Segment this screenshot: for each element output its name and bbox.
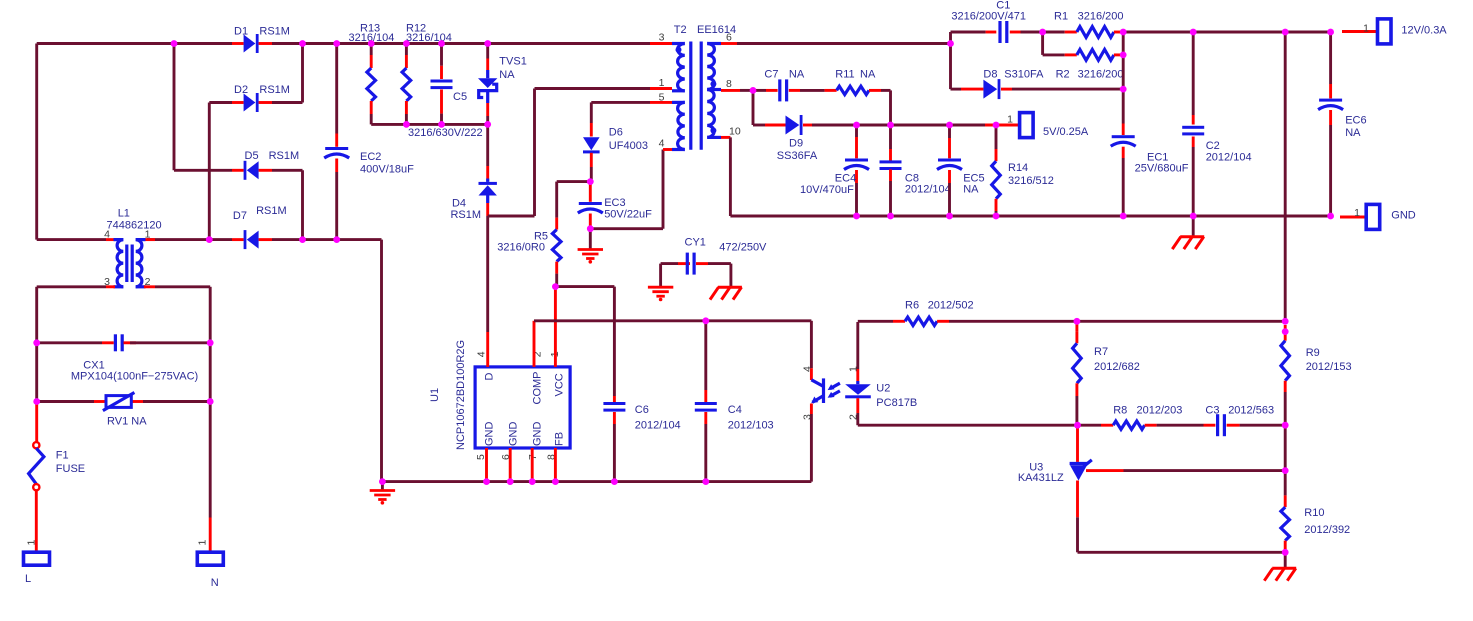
- wire D2 branch vertical: [301, 44, 304, 103]
- svg-text:C3: C3: [1205, 404, 1219, 416]
- svg-text:GND: GND: [1391, 210, 1416, 222]
- diode U2 LED: [856, 322, 859, 369]
- svg-text:GND: GND: [484, 422, 496, 447]
- svg-text:5: 5: [659, 92, 665, 104]
- diode D5: [232, 169, 244, 172]
- svg-text:5V/0.25A: 5V/0.25A: [1043, 126, 1089, 138]
- ground chassis below R10: [1284, 552, 1287, 568]
- svg-text:2012/392: 2012/392: [1304, 524, 1350, 536]
- svg-text:VCC: VCC: [554, 373, 566, 396]
- connector GND: [1366, 204, 1380, 229]
- svg-text:NA: NA: [963, 184, 979, 196]
- wire R5 node to C6: [555, 285, 614, 288]
- svg-text:2012/153: 2012/153: [1306, 361, 1352, 373]
- svg-text:472/250V: 472/250V: [719, 242, 767, 254]
- svg-text:R11: R11: [835, 69, 854, 81]
- svg-text:10V/470uF: 10V/470uF: [800, 184, 854, 196]
- svg-text:50V/22uF: 50V/22uF: [604, 209, 652, 221]
- wire N column: [209, 287, 212, 343]
- diode D2: [232, 101, 244, 104]
- wire U1 pin5: [485, 448, 488, 482]
- svg-text:KA431LZ: KA431LZ: [1018, 472, 1064, 484]
- wire left column to fuse: [35, 287, 38, 343]
- svg-text:RV1 NA: RV1 NA: [107, 416, 147, 428]
- svg-text:C7: C7: [764, 69, 778, 81]
- diode D8: [951, 88, 962, 91]
- svg-text:COMP: COMP: [532, 372, 544, 405]
- svg-text:T2: T2: [674, 24, 687, 36]
- wire U3 anode down: [1076, 481, 1079, 518]
- wire R6 row: [858, 320, 893, 323]
- svg-text:1: 1: [1354, 207, 1360, 219]
- diode D9: [753, 124, 765, 127]
- svg-text:2012/563: 2012/563: [1228, 404, 1274, 416]
- diode D1: [232, 42, 244, 45]
- shunt regulator U3 KA431LZ: [1070, 460, 1092, 481]
- varistor RV1: [37, 400, 94, 403]
- svg-text:RS1M: RS1M: [269, 150, 300, 162]
- resistor R14: [995, 125, 998, 135]
- wire U2 pin3 to ground rail: [810, 404, 813, 415]
- svg-text:1: 1: [659, 77, 665, 89]
- capacitor C6: [613, 396, 616, 402]
- wire D5 branch from node: [173, 44, 176, 171]
- wire D6 top to T2 pin5: [591, 101, 650, 104]
- svg-text:3216/512: 3216/512: [1008, 175, 1054, 187]
- svg-text:RS1M: RS1M: [256, 205, 287, 217]
- wire GND red to connector: [1340, 216, 1366, 219]
- svg-text:SS36FA: SS36FA: [777, 150, 818, 162]
- wire R11 to C8 column: [881, 89, 891, 92]
- capacitor EC3: [589, 182, 592, 190]
- capacitor C4: [704, 321, 707, 390]
- resistor R13: [370, 44, 373, 56]
- svg-text:C4: C4: [728, 404, 742, 416]
- svg-text:2012/104: 2012/104: [905, 184, 951, 196]
- diode D6: [590, 102, 593, 123]
- wire T2 pin6 to C1 node: [737, 42, 951, 45]
- svg-text:R9: R9: [1306, 347, 1320, 359]
- capacitor C3: [1157, 424, 1204, 427]
- wire left vertical from top rail: [35, 44, 38, 240]
- svg-text:D9: D9: [789, 138, 803, 150]
- resistor R9: [1284, 325, 1287, 341]
- junction dots top rail: [171, 40, 178, 47]
- svg-text:N: N: [211, 577, 219, 589]
- fuse F1: [33, 442, 39, 448]
- svg-text:1: 1: [197, 540, 209, 546]
- svg-text:RS1M: RS1M: [259, 26, 290, 38]
- svg-text:EC6: EC6: [1345, 115, 1366, 127]
- resistor R8: [1078, 424, 1102, 427]
- capacitor EC6: [1329, 32, 1332, 84]
- svg-text:3216/200V/471: 3216/200V/471: [951, 11, 1026, 23]
- svg-text:2012/104: 2012/104: [635, 420, 681, 432]
- wire 5V row red to connector: [985, 124, 1020, 127]
- junction dots CX1 RV1 rows: [33, 339, 40, 346]
- svg-text:400V/18uF: 400V/18uF: [360, 164, 414, 176]
- junction dot pin6 node: [947, 40, 954, 47]
- ground chassis below C2: [1192, 216, 1195, 237]
- capacitor C7: [753, 89, 766, 92]
- svg-text:L: L: [25, 573, 31, 585]
- wire D4 node to U1 pin4: [486, 216, 489, 332]
- wire EC3 node to T2 pin4: [590, 227, 663, 230]
- capacitor C5: [440, 44, 443, 66]
- wire pin6 node vertical: [949, 32, 952, 44]
- junction dot T2 pin8 node: [750, 87, 757, 94]
- svg-text:D6: D6: [609, 127, 623, 139]
- diode D4: [486, 166, 489, 179]
- wire top rail left segment: [37, 42, 232, 45]
- svg-text:CY1: CY1: [685, 237, 706, 249]
- wire right drop to U1 ground rail: [380, 240, 383, 482]
- wire TVS to D4: [486, 124, 489, 166]
- svg-text:R6: R6: [905, 300, 919, 312]
- svg-text:R10: R10: [1304, 507, 1324, 519]
- junction dots feedback: [1074, 318, 1081, 325]
- svg-text:EC3: EC3: [604, 197, 625, 209]
- svg-text:3216/200: 3216/200: [1078, 69, 1124, 81]
- wire U1 pin8 FB: [554, 448, 557, 482]
- capacitor CX1: [37, 341, 102, 344]
- resistor R10: [1284, 471, 1287, 496]
- svg-text:D5: D5: [245, 150, 259, 162]
- resistor R2: [1065, 53, 1077, 56]
- svg-text:EC4: EC4: [835, 172, 856, 184]
- wire R2 branch: [1041, 32, 1044, 55]
- wire U1 pin6: [509, 448, 512, 482]
- wire secondary ground rail: [730, 215, 1123, 218]
- svg-text:2: 2: [848, 414, 860, 420]
- junction dots 12V rail: [1039, 29, 1046, 36]
- capacitor EC4: [855, 125, 858, 137]
- svg-text:R14: R14: [1008, 162, 1028, 174]
- svg-text:D2: D2: [234, 84, 248, 96]
- capacitor EC5: [948, 125, 951, 138]
- wire COMP row: [534, 319, 706, 322]
- wire snubber bottom rail: [371, 123, 488, 126]
- junction dots D6 EC3 R5 nodes: [587, 178, 594, 185]
- junction dots primary ground rail: [379, 478, 386, 485]
- svg-text:4: 4: [802, 366, 814, 372]
- wire 12V rail drop to R9: [1284, 32, 1287, 321]
- wire T2 pin6 red stub: [721, 42, 737, 45]
- wire U3 cathode from R8 row: [1076, 425, 1079, 462]
- svg-text:1: 1: [145, 229, 151, 241]
- diode D7: [232, 238, 244, 241]
- wire T2 pin8 stub: [721, 89, 740, 92]
- svg-text:8: 8: [726, 78, 732, 90]
- svg-text:3216/630V/222: 3216/630V/222: [408, 127, 483, 139]
- svg-text:C2: C2: [1206, 140, 1220, 152]
- svg-text:S310FA: S310FA: [1004, 69, 1044, 81]
- svg-text:D: D: [484, 373, 496, 381]
- junction dots secondary ground rail: [853, 213, 860, 220]
- svg-text:4: 4: [659, 138, 665, 150]
- svg-text:744862120: 744862120: [107, 220, 162, 232]
- resistor R12: [405, 44, 408, 56]
- svg-text:F1: F1: [56, 450, 69, 462]
- resistor R1: [1043, 31, 1065, 34]
- wire to L1 pin 4: [37, 238, 106, 241]
- wire U1 pin4: [486, 332, 489, 367]
- wire U2 pin4 from COMP row: [810, 321, 813, 368]
- transistor U2 phototransistor: [811, 378, 823, 403]
- connector N: [197, 552, 223, 565]
- svg-text:R1: R1: [1054, 11, 1068, 23]
- svg-text:GND: GND: [532, 422, 544, 447]
- capacitor C2: [1192, 32, 1195, 115]
- svg-text:PC817B: PC817B: [876, 397, 917, 409]
- wire D5 to bottom row: [272, 169, 303, 172]
- svg-text:NA: NA: [860, 69, 876, 81]
- ground chassis CY1 right: [729, 264, 732, 288]
- svg-text:TVS1: TVS1: [499, 56, 527, 68]
- resistor R6: [893, 320, 905, 323]
- wire R9 R10 mid column: [1284, 425, 1287, 470]
- wire U1 pin2 COMP to row: [533, 321, 536, 367]
- svg-text:D4: D4: [452, 198, 466, 210]
- svg-text:NA: NA: [1345, 127, 1361, 139]
- capacitor C1: [951, 31, 986, 34]
- wire U3 bottom row: [1078, 551, 1286, 554]
- op-amp U1 NCP10672 box: [475, 367, 570, 448]
- svg-text:U1: U1: [429, 388, 441, 402]
- svg-text:6: 6: [726, 32, 732, 44]
- svg-text:4: 4: [476, 351, 488, 357]
- svg-text:12V/0.3A: 12V/0.3A: [1401, 25, 1447, 37]
- svg-text:RS1M: RS1M: [259, 84, 290, 96]
- wire D4 node to T2 pin1: [488, 215, 535, 218]
- wire L1 pin2 row: [144, 285, 155, 288]
- junction dots 5V row: [853, 122, 860, 129]
- connector 5V/0.25A: [1020, 113, 1034, 138]
- svg-text:3: 3: [802, 414, 814, 420]
- inductor L1 common-mode choke: [114, 240, 146, 287]
- junction dots EC1 column: [1120, 52, 1127, 59]
- svg-text:EC2: EC2: [360, 151, 381, 163]
- resistor R7: [1075, 321, 1078, 331]
- svg-text:3216/104: 3216/104: [406, 32, 452, 44]
- ground earth primary rail: [381, 482, 384, 491]
- capacitor EC2: [335, 44, 338, 134]
- svg-text:2012/103: 2012/103: [728, 420, 774, 432]
- svg-text:R7: R7: [1094, 346, 1108, 358]
- connector 12V/0.3A: [1378, 19, 1392, 44]
- capacitor C8: [889, 125, 892, 149]
- svg-text:2012/502: 2012/502: [928, 300, 974, 312]
- svg-text:NCP10672BD100R2G: NCP10672BD100R2G: [455, 340, 467, 450]
- wire T2 pin8 node down to D9: [752, 90, 755, 125]
- svg-text:3216/0R0: 3216/0R0: [497, 242, 545, 254]
- wire D7 row / L1 pin1 to EC2 column: [147, 238, 232, 241]
- svg-text:FB: FB: [554, 432, 566, 446]
- resistor R5: [555, 182, 558, 218]
- wire 12V rail: [1123, 31, 1193, 34]
- svg-text:UF4003: UF4003: [609, 140, 648, 152]
- svg-text:GND: GND: [508, 422, 520, 447]
- capacitor EC1: [1122, 32, 1125, 55]
- connector L: [24, 552, 50, 565]
- svg-text:D8: D8: [983, 69, 997, 81]
- svg-text:1: 1: [1007, 113, 1013, 125]
- wire 5V row: [857, 124, 891, 127]
- svg-text:D1: D1: [234, 26, 248, 38]
- ground earth CY1 left: [659, 264, 662, 288]
- U2 light arrows: [828, 383, 840, 398]
- resistor R11: [825, 89, 837, 92]
- svg-text:4: 4: [104, 229, 110, 241]
- svg-text:R8: R8: [1113, 404, 1127, 416]
- svg-text:D7: D7: [233, 210, 247, 222]
- wire U1 pin7: [531, 448, 534, 482]
- svg-text:NA: NA: [499, 69, 515, 81]
- ground earth below EC3: [589, 229, 592, 250]
- svg-text:C5: C5: [453, 91, 467, 103]
- svg-text:NA: NA: [789, 69, 805, 81]
- wire T2 pin10 to secondary ground rail: [721, 136, 730, 139]
- junction dots D7 row: [206, 236, 213, 243]
- TVS diode TVS1: [486, 44, 489, 59]
- wire primary ground rail: [382, 480, 811, 483]
- transformer T2: [650, 42, 721, 150]
- wire 12V red to connector: [1342, 30, 1378, 33]
- junction dot C4 top: [702, 317, 709, 324]
- svg-text:FUSE: FUSE: [56, 463, 85, 475]
- wire U1 pin1 VCC: [554, 287, 557, 367]
- svg-text:2012/104: 2012/104: [1206, 152, 1252, 164]
- svg-text:1: 1: [26, 540, 38, 546]
- wire L1 pin3 row: [37, 285, 106, 288]
- svg-text:L1: L1: [118, 208, 130, 220]
- svg-text:C6: C6: [635, 404, 649, 416]
- svg-text:25V/680uF: 25V/680uF: [1135, 163, 1189, 175]
- svg-text:3216/200: 3216/200: [1078, 11, 1124, 23]
- wire U3 ref row: [1086, 469, 1100, 472]
- junction dots snubber bottom rail: [403, 121, 410, 128]
- wire D2 row: [208, 103, 211, 240]
- svg-text:RS1M: RS1M: [450, 209, 481, 221]
- svg-text:U2: U2: [876, 383, 890, 395]
- wire fuse to L connector: [35, 490, 38, 552]
- svg-text:R2: R2: [1056, 69, 1070, 81]
- svg-text:2012/682: 2012/682: [1094, 361, 1140, 373]
- wire R8 row from U2 pin2: [858, 424, 1078, 427]
- svg-text:2012/203: 2012/203: [1137, 404, 1183, 416]
- svg-text:1: 1: [1363, 22, 1369, 34]
- svg-text:MPX104(100nF−275VAC): MPX104(100nF−275VAC): [71, 371, 198, 383]
- capacitor CY1: [661, 262, 678, 265]
- wire R5 top to D6 node: [557, 180, 591, 183]
- svg-text:10: 10: [729, 126, 741, 138]
- svg-text:1: 1: [848, 366, 860, 372]
- svg-text:3: 3: [659, 32, 665, 44]
